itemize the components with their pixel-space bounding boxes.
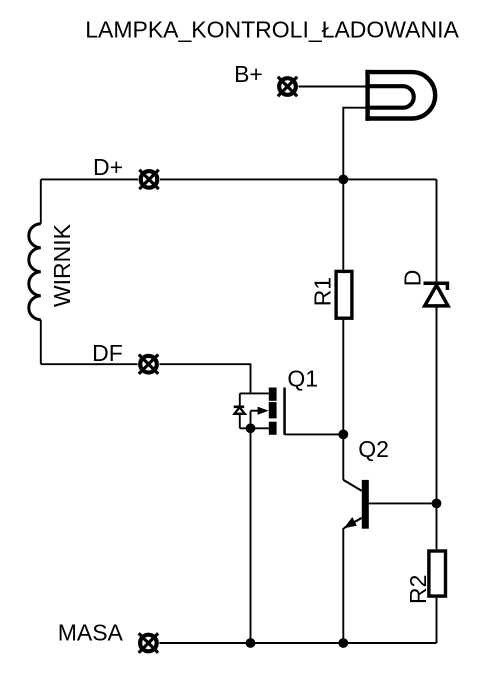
svg-text:R1: R1 [310, 277, 336, 306]
inductor WIRNIK (rotor winding) [29, 224, 41, 320]
wire R1 top [342, 179, 344, 269]
mosfet Q1 source segment [269, 422, 277, 435]
mosfet Q1 body arrow [251, 407, 269, 415]
junction D+ rail / lamp / R1 [338, 175, 348, 185]
port DF [139, 355, 158, 374]
wire Q1 source to ground rail [250, 428, 252, 643]
diode D anode triangle [425, 285, 448, 306]
svg-text:D+: D+ [93, 154, 123, 180]
mosfet Q1 body segment [269, 402, 277, 418]
zener DZ anode triangle [234, 407, 244, 414]
port B+ [278, 77, 297, 96]
wire Q1 drain [240, 392, 269, 394]
junction Q1 source / ground wire [246, 423, 256, 433]
port MASA [139, 633, 158, 652]
wire Q2 base [369, 502, 437, 504]
wire left rail upper [40, 179, 42, 223]
svg-text:MASA: MASA [58, 619, 124, 645]
wire Q1 gate [285, 433, 344, 435]
wire D+ rail to diode D [436, 179, 438, 281]
wire B+ to lamp [299, 86, 368, 88]
wire R2 to ground rail [436, 598, 438, 643]
svg-text:B+: B+ [234, 61, 263, 87]
transistor Q2 base bar [362, 480, 369, 529]
mosfet Q1 drain segment [269, 388, 277, 401]
zener DZ cathode bar [234, 405, 245, 408]
transistor Q2 collector [343, 480, 362, 491]
wire DF to Q1 drain [160, 364, 251, 393]
resistor R1 [336, 271, 352, 318]
wire DF left [41, 363, 138, 365]
svg-text:R2: R2 [405, 575, 431, 604]
wire Q1 source [240, 427, 269, 429]
svg-text:WIRNIK: WIRNIK [49, 223, 75, 307]
junction emitter / ground rail [338, 638, 348, 648]
svg-text:Q2: Q2 [358, 436, 389, 462]
wire node A (R1 to Q2 collector) [342, 320, 344, 480]
diode D cathode bar [424, 283, 448, 290]
wire Q1 body to source [250, 411, 252, 429]
wire D+ rail right [160, 178, 437, 180]
wire zener anode [239, 414, 241, 428]
lamp (charge indicator lamp) [365, 70, 435, 121]
wire Q2 emitter to ground rail [342, 528, 344, 643]
junction node A / gate [338, 430, 348, 440]
svg-text:D: D [399, 270, 425, 287]
resistor R2 [429, 551, 446, 596]
ground rail MASA [159, 642, 436, 644]
port D+ [139, 170, 158, 189]
junction ground rail left [246, 638, 256, 648]
mosfet Q1 gate bar [283, 388, 286, 435]
svg-text:Q1: Q1 [287, 366, 318, 392]
svg-text:LAMPKA_KONTROLI_ŁADOWANIA: LAMPKA_KONTROLI_ŁADOWANIA [85, 16, 459, 42]
svg-text:DF: DF [92, 340, 123, 366]
transistor Q2 emitter [344, 517, 362, 528]
wire D+ rail left [41, 178, 138, 180]
wire zener cathode branch [239, 393, 241, 406]
wire diode D to Q2 base node [436, 306, 438, 549]
wire lamp to D+ rail [343, 108, 366, 180]
wire left rail lower [40, 320, 42, 365]
junction Q2 base / R2 [432, 499, 442, 509]
